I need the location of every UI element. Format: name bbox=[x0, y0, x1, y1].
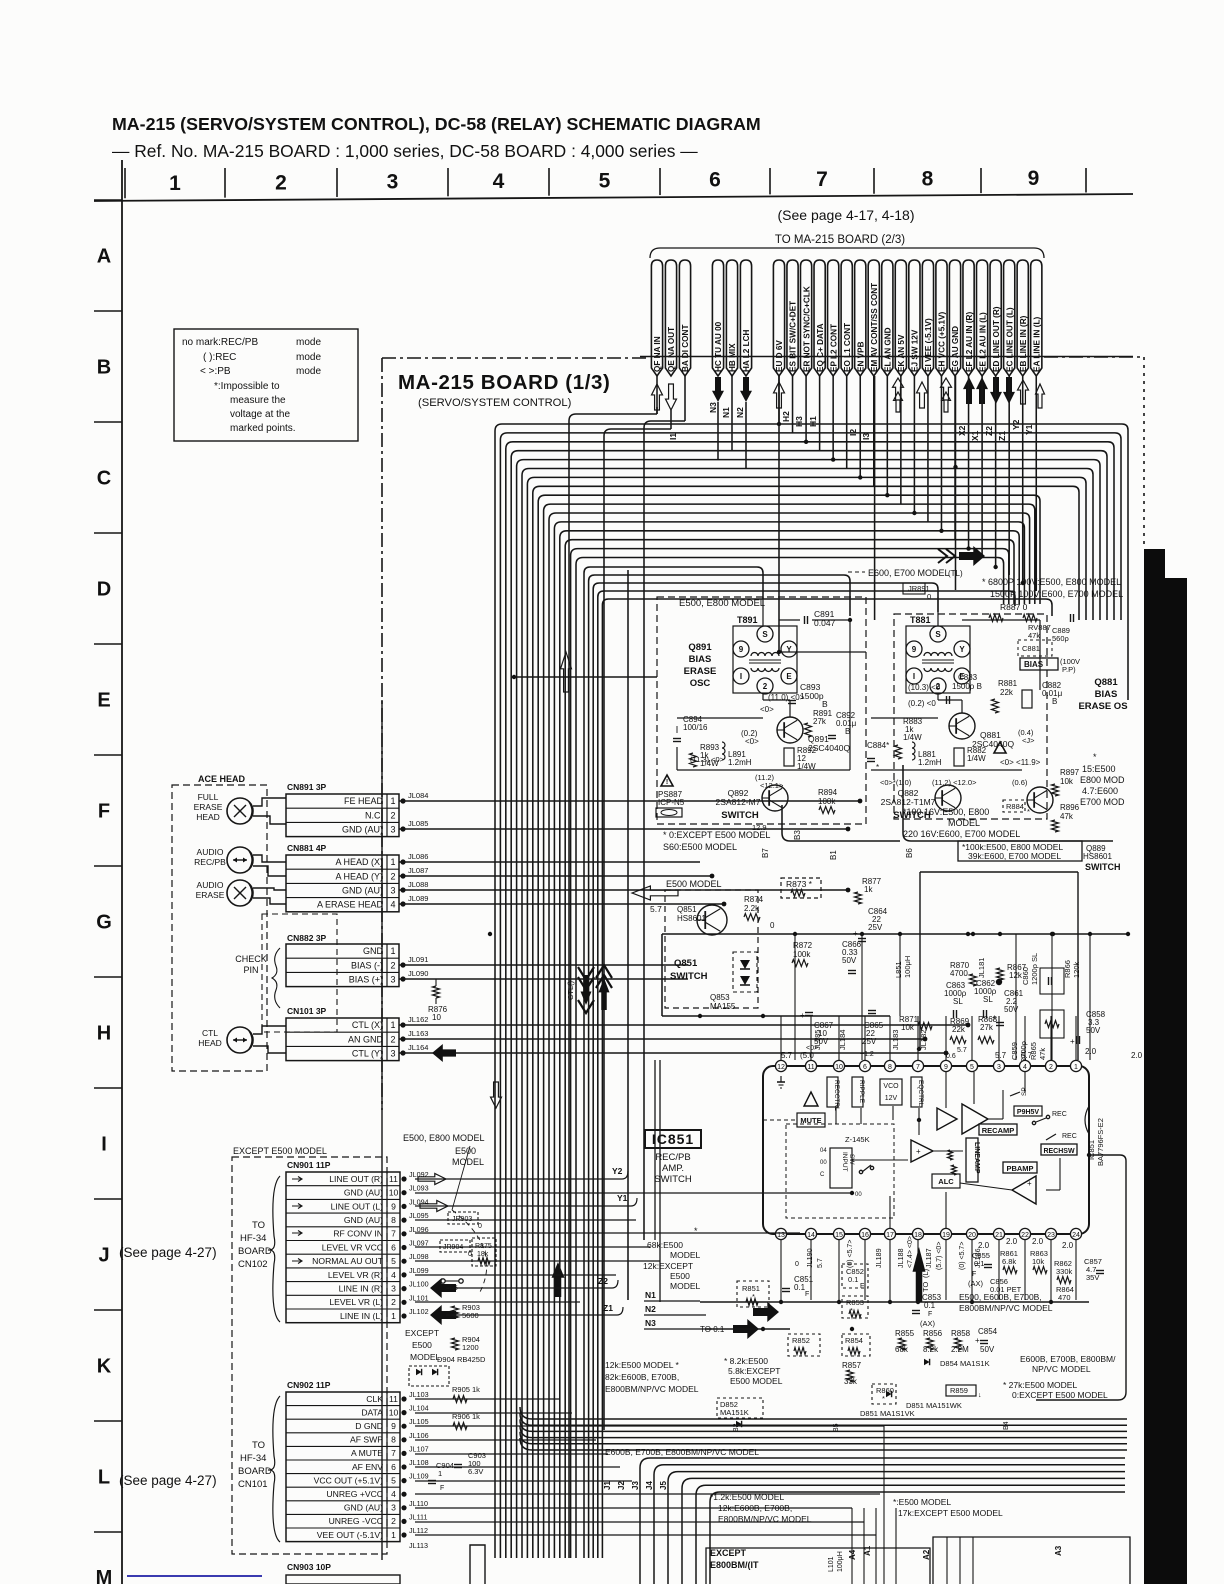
svg-text:JL106: JL106 bbox=[409, 1431, 429, 1440]
svg-text:R884: R884 bbox=[1006, 802, 1024, 811]
junction dots bottom bbox=[779, 1300, 783, 1304]
svg-text:Q851: Q851 bbox=[677, 905, 697, 914]
svg-text:C860: C860 bbox=[1021, 967, 1030, 985]
wire group2 verticals bbox=[717, 402, 719, 459]
svg-text:1: 1 bbox=[391, 1311, 396, 1321]
IC851 internal ALC box bbox=[932, 1174, 960, 1188]
wire bus line 11 bbox=[549, 513, 1030, 1558]
wire from pin BA to bundle bbox=[644, 421, 685, 1240]
svg-text:B: B bbox=[822, 699, 828, 709]
svg-text:J: J bbox=[98, 1245, 109, 1267]
wire stub from pin EM bbox=[873, 376, 875, 486]
svg-text:3: 3 bbox=[390, 825, 395, 835]
dashed box ACE HEAD bbox=[172, 785, 267, 1071]
svg-text:1500ρ B: 1500ρ B bbox=[952, 682, 982, 691]
svg-text:+: + bbox=[916, 1147, 921, 1156]
wire bus line 16 bbox=[576, 558, 1004, 1559]
svg-text:19: 19 bbox=[942, 1232, 950, 1239]
svg-text:I3: I3 bbox=[861, 433, 871, 440]
svg-text:EA LINE IN (L): EA LINE IN (L) bbox=[1032, 317, 1041, 372]
resistor R892 12 1/4W bbox=[784, 748, 794, 766]
wire from pin QE to bundle bbox=[604, 429, 671, 1430]
svg-text:<0>*(1.0): <0>*(1.0) bbox=[880, 778, 912, 787]
svg-text:5600: 5600 bbox=[462, 1311, 479, 1320]
svg-text:J3: J3 bbox=[631, 1481, 640, 1490]
jumper JR904 and R875 18k bbox=[440, 1240, 470, 1252]
JL labels CN901 bbox=[401, 1176, 406, 1181]
junction at pin EH bus bbox=[939, 529, 943, 533]
grid row tick 3 bbox=[94, 532, 122, 534]
svg-text:RECHSW: RECHSW bbox=[1043, 1148, 1075, 1155]
dashed box R852 bbox=[788, 1334, 820, 1356]
svg-text:50V: 50V bbox=[980, 1345, 995, 1354]
svg-text:*:Impossible to: *:Impossible to bbox=[214, 381, 280, 392]
svg-text:2: 2 bbox=[763, 682, 768, 691]
tape path chevron arrow up bbox=[596, 965, 612, 978]
svg-text:JL084: JL084 bbox=[408, 791, 428, 800]
svg-text:R905 1k: R905 1k bbox=[452, 1385, 480, 1394]
svg-text:GND (AU): GND (AU) bbox=[344, 1503, 383, 1513]
svg-text:0.6: 0.6 bbox=[946, 1053, 956, 1060]
svg-text:<12.1>: <12.1> bbox=[760, 781, 784, 790]
IC851 op-amp PBAMP bbox=[1003, 1162, 1037, 1173]
svg-text:8: 8 bbox=[391, 1215, 396, 1225]
svg-text:8: 8 bbox=[922, 167, 934, 190]
grid column tick 8 bbox=[873, 168, 875, 194]
svg-text:2.0: 2.0 bbox=[1062, 1241, 1074, 1250]
protector PS887 ICP-N5 bbox=[661, 775, 673, 786]
svg-text:100μH: 100μH bbox=[837, 1551, 844, 1572]
svg-text:4: 4 bbox=[1023, 1064, 1027, 1071]
svg-text:N2: N2 bbox=[645, 1304, 656, 1314]
svg-text:C859: C859 bbox=[1010, 1042, 1019, 1060]
svg-text:2SA812-T1M7: 2SA812-T1M7 bbox=[881, 797, 936, 807]
svg-text:HEAD: HEAD bbox=[198, 1038, 222, 1048]
svg-text:0.1: 0.1 bbox=[974, 1259, 984, 1268]
svg-text:DATA: DATA bbox=[361, 1407, 383, 1417]
IC851 switch RECHSW bbox=[1041, 1144, 1077, 1155]
svg-text:RIPPLE: RIPPLE bbox=[858, 1080, 865, 1104]
IC851 bottom pin 15 bbox=[833, 1228, 844, 1239]
svg-text:<J>: <J> bbox=[1022, 736, 1035, 745]
svg-text:B6: B6 bbox=[905, 848, 914, 858]
svg-text:VCC OUT (+5.1V): VCC OUT (+5.1V) bbox=[314, 1475, 383, 1485]
connector pin EO (L1 CONT) bbox=[841, 260, 852, 376]
wire EU deep vertical bbox=[778, 376, 780, 652]
svg-text:0.1: 0.1 bbox=[794, 1283, 806, 1292]
svg-text:11: 11 bbox=[389, 1394, 398, 1404]
svg-text:4: 4 bbox=[391, 1270, 396, 1280]
wire right edge of IC to bus bbox=[1087, 1153, 1091, 1157]
svg-text:EL AN GND: EL AN GND bbox=[884, 327, 893, 372]
wire bus line 4 bbox=[511, 451, 1107, 1558]
svg-text:R857: R857 bbox=[842, 1361, 862, 1370]
svg-text:A ERASE HEAD: A ERASE HEAD bbox=[317, 900, 384, 910]
grid column tick 1 bbox=[124, 168, 126, 198]
signal arrow solid down at HA bbox=[740, 377, 752, 402]
svg-text:LEVEL VR (L): LEVEL VR (L) bbox=[329, 1297, 383, 1307]
svg-text:JL099: JL099 bbox=[409, 1266, 429, 1275]
svg-text:E800 MOD: E800 MOD bbox=[1080, 775, 1125, 785]
grid row tick 0 bbox=[94, 199, 122, 201]
svg-text:ERASE: ERASE bbox=[684, 666, 717, 677]
dashed box Q881 bias erase osc bbox=[894, 614, 1047, 819]
svg-text:0: 0 bbox=[927, 592, 931, 601]
svg-text:100μH: 100μH bbox=[903, 956, 912, 978]
board outline dash-dot right bbox=[1143, 357, 1145, 548]
svg-text:mode: mode bbox=[296, 366, 321, 377]
wire JL085 bbox=[400, 826, 405, 831]
signal arrow up at EU bbox=[774, 382, 785, 408]
resistor R882 1/4W bbox=[954, 748, 964, 766]
svg-text:5: 5 bbox=[970, 1064, 974, 1071]
svg-text:*: * bbox=[1093, 752, 1097, 762]
svg-text:17: 17 bbox=[886, 1232, 894, 1239]
svg-text:MODEL: MODEL bbox=[410, 1352, 441, 1362]
svg-text:N3: N3 bbox=[645, 1318, 656, 1328]
svg-text:VCO: VCO bbox=[883, 1083, 899, 1090]
IC851 top pin 6 bbox=[859, 1060, 870, 1071]
grid ruler left vertical line bbox=[121, 160, 123, 1584]
svg-text:E: E bbox=[786, 672, 792, 681]
signal arrow up at EJ bbox=[917, 382, 928, 408]
grid ruler top line bbox=[94, 194, 1133, 201]
hollow right arrow JL092 bbox=[418, 1174, 446, 1185]
svg-text:LEVEL VR VCC: LEVEL VR VCC bbox=[322, 1242, 383, 1252]
svg-text:* 8.2k:E500: * 8.2k:E500 bbox=[724, 1356, 768, 1366]
connector pin EK (AN 5V) bbox=[895, 260, 906, 376]
svg-text:E500, E800 MODEL: E500, E800 MODEL bbox=[679, 598, 765, 609]
wire bus line 13 bbox=[560, 531, 1019, 1558]
svg-text:H3: H3 bbox=[794, 416, 804, 427]
wire row E horizontal bbox=[512, 676, 657, 678]
svg-text:JL108: JL108 bbox=[409, 1458, 429, 1467]
wire bus line 10 bbox=[544, 504, 1035, 1558]
hollow down arrow x496 bbox=[491, 1082, 502, 1108]
svg-text:RECAMP: RECAMP bbox=[982, 1126, 1015, 1135]
svg-text:R854: R854 bbox=[845, 1336, 863, 1345]
svg-text:EB LINE IN (R): EB LINE IN (R) bbox=[1019, 315, 1028, 372]
svg-text:(TL): (TL) bbox=[948, 569, 963, 578]
svg-text:0:EXCEPT E500 MODEL: 0:EXCEPT E500 MODEL bbox=[1012, 1390, 1108, 1400]
svg-text:EXCEPT: EXCEPT bbox=[710, 1548, 747, 1558]
svg-text:EQ C+ DATA: EQ C+ DATA bbox=[816, 323, 825, 372]
svg-text:E500, E800 MODEL: E500, E800 MODEL bbox=[403, 1133, 485, 1143]
svg-text:ED LINE OUT (R): ED LINE OUT (R) bbox=[992, 306, 1001, 372]
grid row tick 2 bbox=[94, 421, 122, 423]
svg-text:PIN: PIN bbox=[243, 965, 258, 975]
svg-text:5.7: 5.7 bbox=[1021, 1051, 1033, 1060]
svg-text:↓: ↓ bbox=[978, 1392, 982, 1399]
svg-text:(AX): (AX) bbox=[920, 1319, 936, 1328]
svg-text:ALC: ALC bbox=[938, 1177, 954, 1186]
svg-text:18: 18 bbox=[914, 1232, 922, 1239]
svg-text:2: 2 bbox=[391, 1297, 396, 1307]
svg-text:C884*: C884* bbox=[867, 741, 889, 750]
svg-text:MA155: MA155 bbox=[710, 1002, 736, 1011]
svg-text:E500: E500 bbox=[412, 1340, 432, 1350]
svg-text:*100 16V:E500, E800: *100 16V:E500, E800 bbox=[903, 807, 989, 817]
svg-text:<0>: <0> bbox=[806, 1045, 818, 1052]
wire bus line 3 bbox=[506, 442, 1114, 1558]
svg-text:HF-34: HF-34 bbox=[240, 1453, 266, 1464]
svg-text:!: ! bbox=[666, 779, 668, 786]
svg-text:4: 4 bbox=[493, 170, 505, 193]
svg-text:JL097: JL097 bbox=[409, 1239, 429, 1248]
diode D852 MA151K bbox=[717, 1398, 763, 1418]
IC851 top pin 12 bbox=[775, 1060, 786, 1071]
svg-text:16: 16 bbox=[861, 1232, 869, 1239]
svg-text:2SA812-M7: 2SA812-M7 bbox=[716, 797, 761, 807]
svg-text:JL111: JL111 bbox=[409, 1512, 428, 1521]
wire vertical dashed x522 bbox=[521, 790, 523, 1310]
svg-text:L851: L851 bbox=[894, 961, 903, 978]
svg-text:TO MA-215 BOARD (2/3): TO MA-215 BOARD (2/3) bbox=[775, 234, 905, 246]
svg-text:CN101: CN101 bbox=[238, 1479, 268, 1490]
IC851 bottom pin 18 bbox=[912, 1228, 923, 1239]
IC851 internal MUTE box bbox=[797, 1113, 825, 1127]
IC851 pin stub wires top bbox=[780, 1016, 782, 1060]
svg-text:JL189: JL189 bbox=[874, 1248, 883, 1268]
svg-text:F: F bbox=[98, 801, 110, 823]
grid column tick 10 bbox=[1085, 168, 1087, 192]
svg-text:12k:EXCEPT: 12k:EXCEPT bbox=[643, 1261, 693, 1271]
svg-text:22k: 22k bbox=[1000, 688, 1014, 697]
bus bundle lower A bbox=[520, 1407, 1127, 1419]
svg-text:(0.6): (0.6) bbox=[1012, 778, 1028, 787]
svg-text:1k: 1k bbox=[864, 885, 873, 894]
connector baseline bbox=[640, 356, 1133, 358]
svg-text:(AX): (AX) bbox=[968, 1279, 984, 1288]
IC851 top pin 9 bbox=[940, 1060, 951, 1071]
svg-text:R855: R855 bbox=[895, 1329, 915, 1338]
solid left arrow JL102 bbox=[430, 1305, 456, 1325]
diode pack Q853 MA155 bbox=[733, 952, 757, 992]
transformer T891 bbox=[733, 626, 797, 693]
wire IC left verticals bbox=[654, 1060, 656, 1240]
resistor R859 bbox=[946, 1385, 976, 1396]
svg-text:J1: J1 bbox=[603, 1481, 612, 1490]
svg-text:SWITCH: SWITCH bbox=[670, 971, 708, 982]
connector pin EH (VCC (+5.1V)) bbox=[936, 260, 947, 376]
svg-text:JL086: JL086 bbox=[408, 852, 428, 861]
IC851 bottom pin 22 bbox=[1019, 1228, 1030, 1239]
wire stub from pin EP bbox=[832, 376, 834, 460]
svg-text:BA7796FS-E2: BA7796FS-E2 bbox=[1096, 1118, 1105, 1166]
svg-text:JL187: JL187 bbox=[924, 1248, 933, 1268]
svg-text:R851: R851 bbox=[742, 1284, 760, 1293]
dashed box R851 bbox=[737, 1281, 769, 1307]
svg-text:EXCEPT E500 MODEL: EXCEPT E500 MODEL bbox=[233, 1146, 327, 1156]
wire stub from pin EH bbox=[940, 376, 942, 531]
connector pin EM (AV CONT/SS CONT) bbox=[868, 260, 879, 376]
svg-text:AF SWP: AF SWP bbox=[350, 1435, 383, 1445]
svg-text:50V: 50V bbox=[1086, 1026, 1101, 1035]
transformer T881 bbox=[906, 626, 970, 693]
svg-text:3: 3 bbox=[997, 1064, 1001, 1071]
svg-text:CN903 10P: CN903 10P bbox=[287, 1562, 331, 1572]
connector pin EU (D 6V) bbox=[773, 260, 784, 376]
svg-text:RF CONV IN: RF CONV IN bbox=[333, 1229, 383, 1239]
svg-text:R874: R874 bbox=[744, 895, 764, 904]
svg-text:Y: Y bbox=[786, 645, 792, 654]
svg-text:3: 3 bbox=[391, 1283, 396, 1293]
svg-text:JL098: JL098 bbox=[409, 1252, 429, 1261]
right edge long vertical wire bbox=[1036, 1155, 1126, 1400]
svg-text:27k: 27k bbox=[980, 1023, 994, 1032]
board outline dash-dot top bbox=[382, 357, 648, 359]
svg-text:HA L2 LCH: HA L2 LCH bbox=[742, 329, 751, 372]
IC851 top pin 10 bbox=[833, 1060, 844, 1071]
svg-text:CLK: CLK bbox=[366, 1394, 383, 1404]
svg-text:2.0: 2.0 bbox=[978, 1241, 990, 1250]
svg-text:ERASE OS: ERASE OS bbox=[1078, 701, 1127, 712]
svg-text:1200: 1200 bbox=[462, 1343, 479, 1352]
svg-text:R875: R875 bbox=[475, 1243, 492, 1250]
connector pin EG (AU GND) bbox=[949, 260, 960, 376]
bottom partial box bbox=[706, 1548, 930, 1584]
svg-text:17k:EXCEPT E500 MODEL: 17k:EXCEPT E500 MODEL bbox=[898, 1508, 1003, 1518]
svg-text:(0.2) <0: (0.2) <0 bbox=[908, 699, 936, 708]
svg-text:JL087: JL087 bbox=[408, 866, 428, 875]
svg-text:H1: H1 bbox=[808, 416, 818, 427]
svg-text:3: 3 bbox=[387, 171, 399, 194]
svg-text:C: C bbox=[97, 468, 111, 490]
svg-text:JL100: JL100 bbox=[409, 1280, 429, 1289]
svg-text:REC: REC bbox=[1062, 1133, 1077, 1140]
svg-text:9: 9 bbox=[912, 645, 917, 654]
arrows in CN901 rows bbox=[292, 1177, 302, 1182]
svg-text:1: 1 bbox=[169, 172, 181, 195]
svg-text:10k: 10k bbox=[1032, 1257, 1044, 1266]
IC851 internal block EQCTRL bbox=[911, 1077, 922, 1107]
svg-text:HEAD: HEAD bbox=[196, 812, 220, 822]
wire bus line 15 bbox=[571, 549, 1009, 1558]
svg-text:AUDIO: AUDIO bbox=[197, 847, 224, 857]
wire stub from pin EG bbox=[954, 376, 956, 540]
svg-text:2.0: 2.0 bbox=[1032, 1237, 1044, 1246]
vertical line x382 table spine bbox=[381, 700, 383, 1560]
svg-text:R866: R866 bbox=[1063, 960, 1072, 978]
svg-text:F: F bbox=[440, 1485, 444, 1492]
svg-text:CN902 11P: CN902 11P bbox=[287, 1380, 331, 1390]
scan black bar main bbox=[1144, 578, 1187, 1584]
svg-text:JL181: JL181 bbox=[977, 958, 986, 978]
svg-text:E500: E500 bbox=[455, 1146, 476, 1156]
svg-text:120k: 120k bbox=[1072, 961, 1081, 978]
svg-text:measure the: measure the bbox=[230, 395, 286, 406]
wire bus line lower 5 bbox=[602, 599, 1052, 1558]
svg-text:1/4W: 1/4W bbox=[967, 754, 986, 763]
svg-text:CN102: CN102 bbox=[238, 1259, 268, 1270]
connector pin HA (L2 LCH) bbox=[740, 260, 751, 376]
svg-text:E500 MODEL: E500 MODEL bbox=[730, 1376, 783, 1386]
svg-text:2.0: 2.0 bbox=[1085, 1047, 1097, 1056]
svg-text:LINE OUT (R): LINE OUT (R) bbox=[329, 1174, 383, 1184]
svg-text:25V: 25V bbox=[862, 1037, 877, 1046]
svg-text:+: + bbox=[1070, 1037, 1075, 1046]
wire bus line 2 bbox=[500, 433, 1121, 1558]
svg-text:JL113: JL113 bbox=[409, 1541, 428, 1550]
wire bus line 1 bbox=[495, 424, 1128, 1558]
svg-text:47k: 47k bbox=[1038, 1048, 1047, 1060]
svg-text:1.2mH: 1.2mH bbox=[918, 758, 942, 767]
svg-text:C: C bbox=[820, 1172, 825, 1178]
wire JL163 bbox=[400, 1036, 405, 1041]
svg-text:JL085: JL085 bbox=[408, 819, 428, 828]
bus bundle lower B bbox=[640, 1458, 1125, 1584]
connector pin EF (L2 AU IN (R)) bbox=[963, 260, 974, 376]
wire bus line 5 bbox=[517, 460, 1100, 1558]
svg-text:10: 10 bbox=[835, 1064, 843, 1071]
svg-text:CTL (X): CTL (X) bbox=[352, 1020, 383, 1030]
svg-text:22k: 22k bbox=[952, 1025, 966, 1034]
svg-text:47k: 47k bbox=[1060, 812, 1074, 821]
grid column tick 7 bbox=[769, 168, 771, 194]
signal arrow solid down at ED bbox=[990, 377, 1002, 404]
IC851 small resistors near LINEAMP bbox=[948, 1150, 953, 1160]
svg-text:OSC: OSC bbox=[690, 678, 711, 689]
svg-text:00: 00 bbox=[855, 1192, 862, 1198]
connector pin QF (NA IN) bbox=[651, 260, 662, 376]
svg-text:A3: A3 bbox=[1054, 1545, 1063, 1556]
wire bus line 14 bbox=[565, 540, 1014, 1558]
svg-text:9: 9 bbox=[391, 1421, 396, 1431]
IC851 pin stub wires bottom bbox=[780, 1240, 782, 1300]
connector pin ES (BIT SW/C+DET) bbox=[787, 260, 798, 376]
svg-text:−1.2: −1.2 bbox=[860, 1051, 874, 1058]
svg-text:9: 9 bbox=[391, 1201, 396, 1211]
signal arrow solid up at EF bbox=[963, 377, 975, 404]
svg-text:D: D bbox=[97, 579, 111, 601]
IC851 pin 12 ground bbox=[780, 1076, 782, 1082]
svg-text:G: G bbox=[96, 912, 112, 934]
IC851 top pin 7 bbox=[912, 1060, 923, 1071]
IC851 top pin 11 bbox=[805, 1060, 816, 1071]
svg-text:I1: I1 bbox=[668, 433, 678, 440]
svg-text:GND (AU): GND (AU) bbox=[342, 886, 383, 896]
svg-text:14: 14 bbox=[807, 1232, 815, 1239]
svg-text:*: * bbox=[882, 1394, 885, 1403]
svg-text:A: A bbox=[97, 246, 111, 268]
resistor R853 bbox=[842, 1296, 868, 1318]
svg-text:EK AN 5V: EK AN 5V bbox=[897, 334, 906, 372]
svg-text:6: 6 bbox=[391, 1242, 396, 1252]
hollow left arrow 5.7 bbox=[632, 886, 678, 900]
svg-text:4: 4 bbox=[391, 1489, 396, 1499]
legend note box bbox=[174, 329, 358, 441]
svg-text:Q881: Q881 bbox=[1094, 677, 1118, 688]
svg-text:10: 10 bbox=[389, 1407, 399, 1417]
wire corner B3 bbox=[782, 805, 900, 841]
svg-text:3: 3 bbox=[390, 1049, 395, 1059]
svg-text:IC851: IC851 bbox=[652, 1131, 694, 1147]
svg-text:BOARD: BOARD bbox=[238, 1246, 272, 1257]
svg-text:FE HEAD: FE HEAD bbox=[344, 796, 384, 806]
svg-text:D851 MA1S1VK: D851 MA1S1VK bbox=[860, 1409, 915, 1418]
svg-text:PBAMP: PBAMP bbox=[1006, 1164, 1033, 1173]
signal arrow solid up at EE bbox=[976, 377, 988, 404]
svg-text:BIAS: BIAS bbox=[1095, 689, 1118, 700]
svg-text:D854 MA1S1K: D854 MA1S1K bbox=[940, 1359, 990, 1368]
svg-text:D GND: D GND bbox=[355, 1421, 383, 1431]
svg-text:CN891 3P: CN891 3P bbox=[287, 782, 327, 792]
svg-text:J5: J5 bbox=[659, 1481, 668, 1490]
signal arrow down at QE bbox=[666, 384, 677, 410]
svg-text:mode: mode bbox=[296, 337, 321, 348]
svg-text:K: K bbox=[97, 1356, 112, 1378]
svg-text:<7.4> <0>: <7.4> <0> bbox=[907, 1236, 914, 1268]
